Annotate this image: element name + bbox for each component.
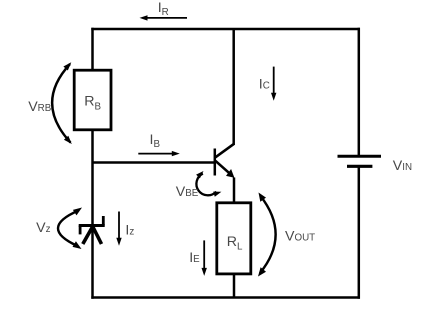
svg-text:Vz: Vz: [36, 220, 50, 236]
svg-text:VBE: VBE: [176, 184, 199, 200]
wire right upper: [358, 28, 361, 157]
wire emitter vertical: [233, 178, 236, 204]
zener diode DZ: [79, 216, 105, 244]
voltage arc VBE: [196, 171, 221, 197]
svg-text:IC: IC: [259, 76, 270, 92]
wire left: [91, 28, 94, 299]
svg-text:VRB: VRB: [28, 99, 52, 115]
svg-text:VOUT: VOUT: [285, 228, 315, 244]
svg-text:Iz: Iz: [125, 223, 134, 239]
current arrow IZ: [116, 212, 121, 246]
current arrow IC: [271, 67, 276, 101]
svg-text:IR: IR: [158, 0, 169, 18]
voltage arc VZ: [58, 208, 82, 250]
battery VIN: [338, 156, 382, 166]
current arrow IR: [140, 15, 188, 20]
voltage arc VOUT: [258, 193, 276, 277]
wire right lower: [358, 166, 361, 298]
svg-text:VIN: VIN: [393, 158, 412, 174]
wire RL to bottom: [233, 273, 236, 298]
wire bottom: [91, 296, 360, 299]
wire base horizontal: [93, 161, 215, 164]
svg-text:IE: IE: [189, 250, 200, 266]
current arrow IE: [202, 240, 207, 276]
current arrow IB: [138, 151, 180, 156]
resistor RB: [74, 70, 111, 130]
wire collector vertical: [232, 29, 235, 145]
transistor Q1: [215, 144, 235, 178]
svg-text:IB: IB: [150, 132, 161, 150]
resistor RL: [217, 203, 251, 274]
wire top: [91, 28, 360, 31]
voltage arc VRB: [52, 62, 72, 144]
